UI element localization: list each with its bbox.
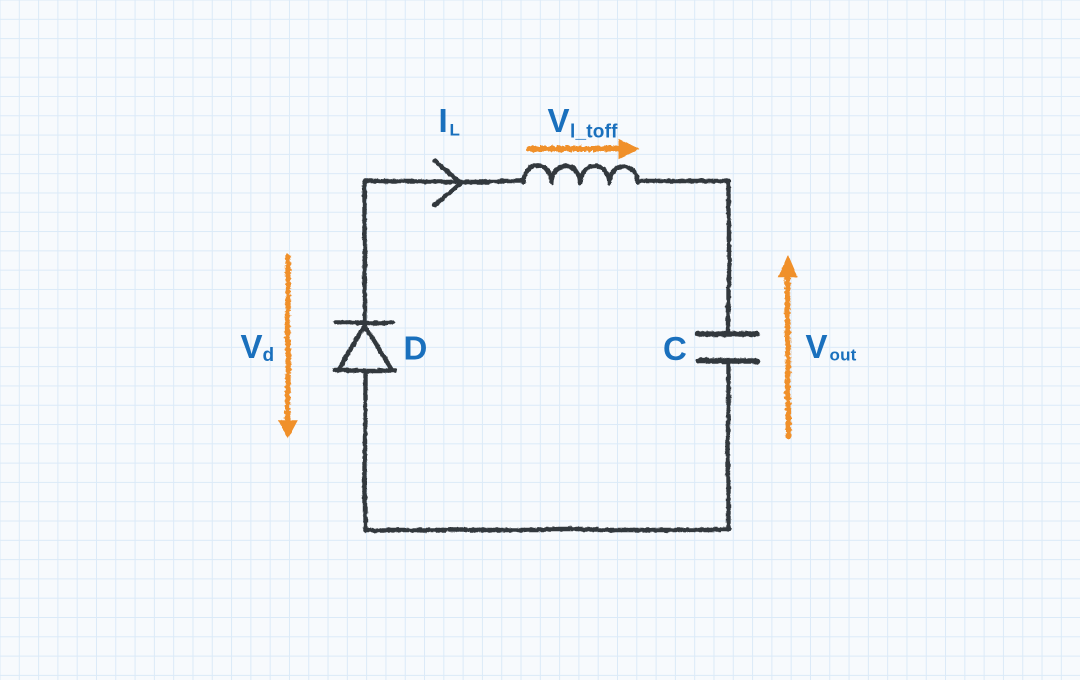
diode D triangle — [338, 325, 391, 369]
diode D cathode bar — [336, 320, 393, 324]
svg-text:Vl_toff: Vl_toff — [548, 102, 619, 143]
wires and dark components — [334, 161, 757, 531]
arrow V_l_toff head — [619, 139, 640, 159]
wire right lower — [726, 361, 730, 530]
wire right upper — [726, 181, 730, 333]
arrow V_d shaft — [285, 257, 290, 423]
arrow V_l_toff shaft — [529, 146, 622, 152]
wire left upper — [363, 181, 367, 327]
wire bottom — [365, 527, 729, 531]
svg-text:Vout: Vout — [806, 328, 857, 365]
svg-text:D: D — [404, 329, 428, 366]
orange annotation arrows — [278, 139, 798, 439]
svg-text:Vd: Vd — [241, 328, 275, 366]
wire top-right segment — [638, 179, 729, 183]
arrow V_d head — [278, 420, 298, 438]
arrow V_out head — [778, 255, 798, 278]
svg-text:C: C — [663, 330, 687, 367]
capacitor C bottom plate — [698, 358, 757, 363]
wire left lower — [363, 371, 367, 530]
capacitor C top plate — [698, 331, 757, 336]
diode D anode base line — [334, 368, 395, 372]
arrow V_out shaft — [785, 277, 790, 437]
svg-text:IL: IL — [439, 102, 460, 140]
inductor L — [523, 166, 638, 183]
current direction chevron — [435, 161, 461, 205]
wire top-left segment — [365, 179, 523, 183]
